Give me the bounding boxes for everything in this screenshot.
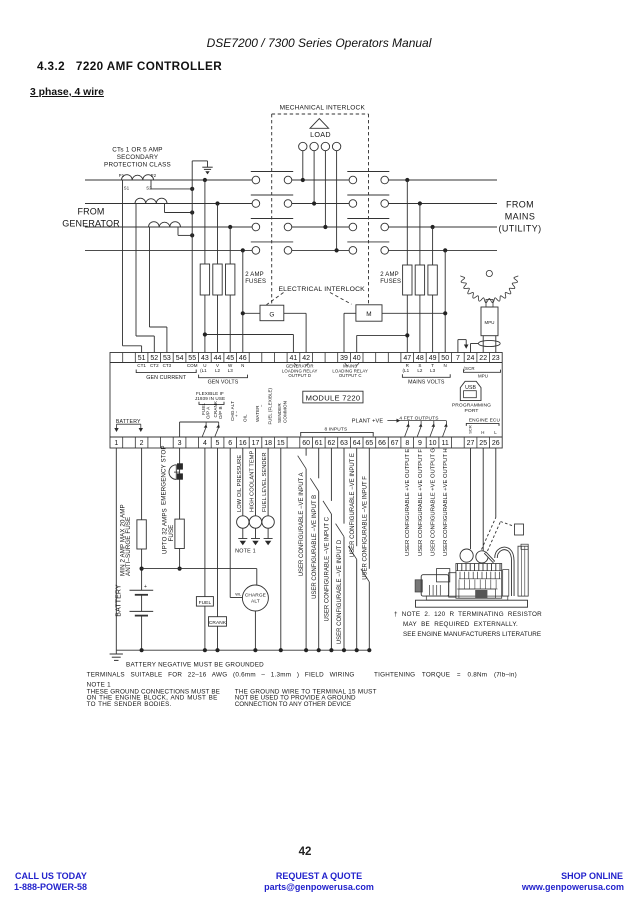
- svg-text:PROGRAMMING: PROGRAMMING: [452, 403, 491, 409]
- svg-text:50: 50: [441, 355, 449, 362]
- svg-text:TO THE SENDER BODIES.: TO THE SENDER BODIES.: [87, 701, 172, 708]
- svg-text:66: 66: [378, 440, 386, 447]
- svg-text:+ −: + −: [234, 410, 239, 417]
- svg-text:15: 15: [277, 440, 285, 447]
- svg-text:FROM: FROM: [506, 200, 534, 210]
- svg-text:+: +: [144, 584, 147, 590]
- svg-text:USER CONFIGURABLE −VE INPUT A: USER CONFIGURABLE −VE INPUT A: [299, 473, 305, 577]
- svg-text:23: 23: [492, 355, 500, 362]
- svg-text:5: 5: [216, 440, 220, 447]
- svg-text:ELECTRICAL INTERLOCK: ELECTRICAL INTERLOCK: [278, 286, 365, 293]
- svg-text:6: 6: [228, 440, 232, 447]
- svg-text:26: 26: [492, 440, 500, 447]
- svg-text:FUEL LEVEL SENDER: FUEL LEVEL SENDER: [262, 452, 268, 512]
- svg-text:2 AMP: 2 AMP: [380, 272, 399, 278]
- svg-text:44: 44: [214, 355, 222, 362]
- svg-text:42: 42: [302, 355, 310, 362]
- svg-text:USER CONFIGURABLE −VE INPUT C: USER CONFIGURABLE −VE INPUT C: [325, 516, 331, 621]
- svg-text:COMMON: COMMON: [282, 401, 287, 423]
- svg-text:CT2: CT2: [150, 363, 159, 368]
- svg-text:11: 11: [442, 440, 449, 447]
- svg-text:LOW OIL PRESSURE: LOW OIL PRESSURE: [237, 455, 243, 512]
- svg-text:PROTECTION CLASS: PROTECTION CLASS: [104, 162, 171, 169]
- svg-text:10: 10: [429, 440, 437, 447]
- svg-text:(UTILITY): (UTILITY): [498, 224, 541, 234]
- svg-text:L2: L2: [417, 368, 423, 373]
- svg-text:54: 54: [176, 355, 184, 362]
- svg-text:M: M: [366, 311, 372, 318]
- svg-text:CRANK: CRANK: [209, 620, 227, 626]
- svg-text:CT1: CT1: [137, 363, 146, 368]
- svg-text:22: 22: [479, 355, 487, 362]
- svg-text:(L1: (L1: [200, 368, 207, 373]
- svg-text:GEN CURRENT: GEN CURRENT: [146, 375, 187, 381]
- svg-text:2: 2: [140, 440, 144, 447]
- svg-text:17: 17: [252, 440, 260, 447]
- svg-text:OUTPUT C: OUTPUT C: [339, 373, 362, 378]
- svg-text:TERMINALS SUITABLE FOR 22–16 A: TERMINALS SUITABLE FOR 22–16 AWG (0.6mm …: [87, 671, 355, 678]
- svg-text:CT3: CT3: [163, 363, 172, 368]
- svg-text:L3: L3: [430, 368, 436, 373]
- svg-text:USER CONFIGURABLE +VE OUTPUT G: USER CONFIGURABLE +VE OUTPUT G: [431, 448, 437, 556]
- svg-text:FUEL: FUEL: [199, 600, 212, 606]
- svg-text:60: 60: [302, 440, 310, 447]
- svg-text:USER CONFIGURABLE −VE INPUT E: USER CONFIGURABLE −VE INPUT E: [350, 453, 356, 557]
- svg-text:P2: P2: [151, 173, 157, 178]
- svg-text:USER CONFIGURABLE −VE INPUT D: USER CONFIGURABLE −VE INPUT D: [337, 539, 343, 644]
- svg-text:MAINS: MAINS: [505, 212, 536, 222]
- svg-text:8: 8: [405, 440, 409, 447]
- svg-text:24: 24: [467, 355, 475, 362]
- svg-text:FROM: FROM: [77, 207, 104, 217]
- svg-text:GENERATOR: GENERATOR: [62, 219, 120, 229]
- svg-text:USB: USB: [465, 385, 476, 391]
- svg-text:BATTERY: BATTERY: [115, 584, 122, 617]
- svg-text:LOAD: LOAD: [310, 130, 331, 139]
- svg-text:ANTI–SURGE FUSE: ANTI–SURGE FUSE: [125, 517, 132, 576]
- svg-text:NOTE 1: NOTE 1: [235, 549, 256, 555]
- svg-text:−: −: [259, 404, 264, 407]
- svg-text:S1: S1: [124, 186, 130, 191]
- svg-text:GEN VOLTS: GEN VOLTS: [208, 380, 239, 386]
- svg-text:FUEL (FLEXIBLE): FUEL (FLEXIBLE): [268, 388, 273, 425]
- svg-text:HIGH COOLANT TEMP: HIGH COOLANT TEMP: [250, 451, 256, 512]
- svg-text:(L1: (L1: [402, 368, 409, 373]
- svg-text:25: 25: [479, 440, 487, 447]
- svg-text:O/P A: O/P A: [206, 406, 211, 419]
- svg-text:46: 46: [239, 355, 247, 362]
- svg-text:8 INPUTS: 8 INPUTS: [325, 427, 348, 433]
- svg-text:EMERGENCY STOP: EMERGENCY STOP: [161, 445, 168, 505]
- svg-text:61: 61: [315, 440, 323, 447]
- svg-text:CHARGE: CHARGE: [245, 593, 266, 599]
- svg-text:TIGHTENING TORQUE = 0.8Nm (7lb: TIGHTENING TORQUE = 0.8Nm (7lb–in): [374, 671, 517, 678]
- svg-text:USER CONFIGURABLE +VE OUTPUT F: USER CONFIGURABLE +VE OUTPUT F: [418, 449, 424, 556]
- svg-text:1: 1: [114, 440, 118, 447]
- svg-text:16: 16: [239, 440, 247, 447]
- svg-text:47: 47: [403, 355, 411, 362]
- svg-text:MPU: MPU: [484, 320, 494, 325]
- svg-text:SENDER: SENDER: [277, 403, 282, 423]
- svg-text:PORT: PORT: [465, 408, 479, 414]
- svg-text:2 AMP: 2 AMP: [245, 272, 264, 278]
- svg-text:SECONDARY: SECONDARY: [117, 154, 159, 161]
- svg-text:7: 7: [456, 355, 460, 362]
- svg-text:L3: L3: [228, 368, 234, 373]
- svg-text:65: 65: [365, 440, 373, 447]
- svg-text:L: L: [494, 430, 497, 435]
- svg-text:MECHANICAL INTERLOCK: MECHANICAL INTERLOCK: [280, 105, 366, 112]
- svg-text:55: 55: [188, 355, 196, 362]
- svg-text:MAINS VOLTS: MAINS VOLTS: [408, 379, 445, 385]
- svg-text:FUSES: FUSES: [380, 279, 401, 285]
- svg-text:40: 40: [353, 355, 361, 362]
- svg-text:67: 67: [391, 440, 399, 447]
- svg-text:ALT: ALT: [251, 599, 260, 605]
- svg-text:H: H: [481, 430, 484, 435]
- svg-text:N: N: [444, 363, 447, 368]
- svg-text:CONNECTION TO ANY OTHER DEVICE: CONNECTION TO ANY OTHER DEVICE: [235, 701, 351, 708]
- svg-text:(SCR: (SCR: [464, 366, 475, 371]
- svg-text:FUSES: FUSES: [245, 279, 266, 285]
- svg-text:† NOTE 2. 120 R TERMINATING RE: † NOTE 2. 120 R TERMINATING RESISTOR: [394, 611, 542, 618]
- svg-text:BATTERY NEGATIVE MUST BE GROUN: BATTERY NEGATIVE MUST BE GROUNDED: [126, 661, 264, 668]
- svg-text:64: 64: [353, 440, 361, 447]
- svg-text:ENGINE ECU: ENGINE ECU: [469, 418, 501, 424]
- svg-text:MODULE 7220: MODULE 7220: [306, 393, 361, 402]
- svg-text:USER CONFIGURABLE −VE INPUT F: USER CONFIGURABLE −VE INPUT F: [362, 476, 368, 580]
- svg-text:48: 48: [416, 355, 424, 362]
- svg-text:USER CONFIGURABLE +VE OUTPUT H: USER CONFIGURABLE +VE OUTPUT H: [443, 448, 449, 556]
- svg-text:USER CONFIGURABLE −VE INPUT B: USER CONFIGURABLE −VE INPUT B: [312, 495, 318, 599]
- svg-text:J1939 IN USE: J1939 IN USE: [195, 396, 225, 401]
- svg-text:MPU: MPU: [478, 374, 488, 379]
- svg-text:SEE ENGINE MANUFACTURERS LITER: SEE ENGINE MANUFACTURERS LITERATURE: [403, 631, 541, 638]
- svg-text:P1: P1: [119, 173, 125, 178]
- svg-text:52: 52: [150, 355, 158, 362]
- svg-text:O/P B: O/P B: [218, 406, 223, 419]
- svg-text:45: 45: [226, 355, 234, 362]
- svg-text:OUTPUT D: OUTPUT D: [288, 373, 311, 378]
- svg-text:CTs 1 OR 5 AMP: CTs 1 OR 5 AMP: [112, 147, 162, 154]
- svg-text:18: 18: [264, 440, 272, 447]
- svg-text:MAY BE REQUIRED EXTERNALLY.: MAY BE REQUIRED EXTERNALLY.: [403, 621, 518, 628]
- svg-text:63: 63: [340, 440, 348, 447]
- svg-text:53: 53: [163, 355, 171, 362]
- svg-text:L2: L2: [215, 368, 221, 373]
- svg-text:41: 41: [290, 355, 298, 362]
- svg-text:4: 4: [203, 440, 207, 447]
- svg-text:COM: COM: [187, 363, 198, 368]
- svg-text:27: 27: [467, 440, 475, 447]
- svg-text:N: N: [241, 363, 244, 368]
- svg-text:SCR: SCR: [468, 425, 473, 434]
- svg-text:OIL: OIL: [242, 414, 247, 422]
- svg-text:51: 51: [138, 355, 146, 362]
- svg-text:3: 3: [178, 440, 182, 447]
- svg-text:62: 62: [328, 440, 336, 447]
- svg-text:FUSE: FUSE: [168, 525, 175, 542]
- svg-text:9: 9: [418, 440, 422, 447]
- svg-text:WL: WL: [235, 592, 242, 597]
- svg-text:G: G: [269, 311, 274, 318]
- svg-text:43: 43: [201, 355, 209, 362]
- svg-text:49: 49: [429, 355, 437, 362]
- svg-text:39: 39: [340, 355, 348, 362]
- svg-text:USER CONFIGURABLE +VE OUTPUT E: USER CONFIGURABLE +VE OUTPUT E: [405, 449, 411, 556]
- svg-text:PLANT +VE: PLANT +VE: [352, 418, 384, 424]
